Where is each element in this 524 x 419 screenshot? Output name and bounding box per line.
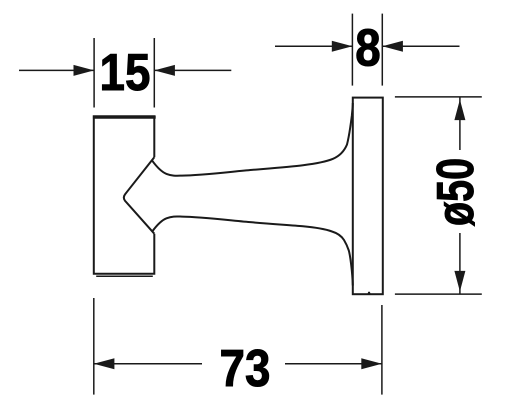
dim o50: top extension line [395, 96, 482, 98]
dim 15: left arrowhead [74, 65, 95, 76]
dim o50: up arrowhead [454, 100, 465, 121]
wall plate bottom edge small tick [368, 292, 371, 294]
dim o50: bottom extension line [395, 293, 482, 295]
dim 73: right extension line [381, 305, 383, 395]
dim 15: left extension line [93, 38, 95, 108]
wall plate (right rectangle) [353, 98, 383, 295]
dim 15: right leader line [154, 69, 231, 71]
svg-text:ø50: ø50 [426, 158, 485, 226]
dim 73: left extension line [93, 298, 95, 395]
svg-text:8: 8 [355, 20, 380, 77]
dim o50: down arrowhead [454, 271, 465, 292]
dim 15: left leader line [19, 69, 94, 71]
svg-text:73: 73 [220, 341, 271, 398]
cone (back of knob face) [124, 157, 154, 233]
dim 8: right leader line [382, 45, 459, 47]
dim 8: right extension line [381, 14, 383, 86]
front plate top edge thick line [93, 115, 156, 118]
svg-text:15: 15 [100, 44, 151, 101]
dim o50: lower dimension line segment [459, 233, 461, 294]
dim 15: right arrowhead [154, 65, 175, 76]
stem top edge [152, 103, 353, 176]
dim 73: left tail line [94, 363, 202, 365]
front plate (knob face, left rectangle; right edge hidden behind cone) [94, 116, 155, 274]
dim 73: right arrowhead (points right) [361, 358, 382, 369]
dim 8: left extension line [351, 14, 353, 86]
dim 8: left leader line [275, 45, 352, 47]
dim o50: upper dimension line segment [459, 98, 461, 151]
dim 8: right arrowhead [382, 41, 403, 52]
front plate bottom secondary contour line [96, 275, 153, 277]
dim 73: right tail line [285, 363, 382, 365]
dim 8: left arrowhead [332, 41, 353, 52]
dim 15: right extension line [153, 38, 155, 108]
stem bottom edge [152, 216, 353, 285]
dim 73: left arrowhead (points left) [94, 358, 115, 369]
